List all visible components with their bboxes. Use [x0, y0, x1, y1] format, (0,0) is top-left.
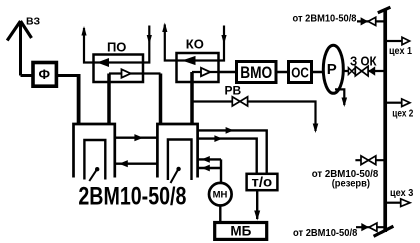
wire Р to valve З — [343, 70, 383, 72]
pipe stage 2 discharge up to КО — [190, 72, 194, 123]
ПО air line (lower, open right arrow) — [109, 72, 161, 74]
svg-text:т/о: т/о — [252, 174, 273, 190]
branch цех 2 — [386, 102, 402, 104]
compressor cylinder 2 outer shell — [157, 124, 197, 178]
КО water line (upper) — [177, 59, 219, 61]
wire oil pump riser — [220, 159, 222, 183]
receiver Р (ellipse) — [323, 45, 343, 93]
interstage return wire (left arrow) — [115, 162, 158, 164]
svg-text:ОС: ОС — [291, 65, 309, 81]
dryer ОС — [289, 62, 312, 83]
ПО water line (upper) — [94, 61, 144, 63]
check valve ОК (filled left triangle) — [368, 66, 375, 75]
svg-text:Р: Р — [327, 61, 337, 78]
compressor cylinder 2 inner piston — [168, 140, 192, 181]
wire Т/О to МБ (down arrow) — [256, 190, 258, 219]
leader line cylinder 2 — [171, 169, 179, 183]
interstage wire (stage1 to stage2, right arrow) — [115, 136, 158, 138]
svg-text:2ВМ10-50/8: 2ВМ10-50/8 — [78, 182, 186, 210]
ПО water inlet pipe (down arrow) — [143, 26, 149, 63]
svg-text:КО: КО — [186, 36, 204, 51]
wire top feed — [357, 20, 384, 22]
valve РВ (open bowtie) — [232, 97, 247, 106]
wire filter to compressor stage 1 suction — [57, 74, 79, 77]
Р drain line with down arrow — [335, 89, 344, 105]
svg-text:З ОК: З ОК — [350, 54, 377, 68]
wire ВЗ to filter — [21, 74, 34, 77]
header bottom cap — [374, 226, 394, 236]
svg-text:ВЗ: ВЗ — [26, 16, 40, 28]
svg-text:Ф: Ф — [39, 67, 51, 82]
pipe ПО down to stage 1 discharge — [107, 74, 111, 124]
svg-text:цех 3: цех 3 — [390, 187, 413, 199]
wire КО to ВМО — [219, 71, 237, 74]
svg-text:МБ: МБ — [230, 223, 251, 238]
oil tank МБ — [215, 223, 267, 240]
wire ВМО to ОС — [276, 71, 289, 74]
header pipe (vertical main) — [383, 10, 387, 233]
КО water inlet pipe (down arrow) — [219, 26, 225, 61]
svg-text:от 2ВМ10-50/8: от 2ВМ10-50/8 — [293, 13, 357, 25]
КО air line (lower, open right arrow) — [192, 71, 219, 73]
valve (large open bowtie) — [355, 66, 368, 76]
compressor cylinder 1 inner piston — [84, 140, 105, 180]
oil outlet wire 1 (to Т/О) — [198, 130, 267, 173]
oil outlet wire 2 (to Т/О) — [198, 139, 257, 174]
bottom feed valve (open bowtie) — [356, 226, 384, 228]
svg-text:ВМО: ВМО — [240, 64, 272, 82]
oil supply wire 1 (left arrow into compressor) — [198, 158, 221, 160]
valve top feed (half filled bowtie) — [361, 17, 369, 25]
branch цех 1 — [386, 40, 402, 42]
cooler ПО box — [94, 55, 144, 83]
air intake arrow ВЗ — [7, 21, 31, 76]
svg-text:цех 2: цех 2 — [392, 108, 413, 120]
reserve feed valve (open bowtie) — [355, 159, 383, 161]
filter Ф — [33, 63, 56, 87]
valve З (small bowtie) — [348, 68, 355, 75]
header top cap — [378, 7, 391, 13]
oil pump МН — [209, 183, 232, 206]
pipe ПО to stage 2 suction — [159, 74, 163, 124]
svg-text:от 2ВМ10-50/8: от 2ВМ10-50/8 — [293, 227, 357, 239]
oil supply wire 2 (left arrow into compressor) — [198, 167, 221, 169]
separator ВМО — [237, 62, 277, 83]
heat exchanger Т/О — [247, 174, 278, 190]
ПО water flow arrow (filled left) — [97, 58, 109, 67]
svg-text:(резерв): (резерв) — [332, 178, 370, 190]
wire ОС to Р — [312, 71, 324, 74]
unloading valve branch РВ — [192, 100, 232, 102]
cooler КО box — [177, 53, 219, 82]
wire МН to МБ — [219, 206, 221, 223]
КО water outlet pipe (up arrow) — [165, 25, 177, 61]
svg-text:цех 1: цех 1 — [389, 45, 412, 57]
compressor cylinder 1 outer shell — [74, 124, 115, 178]
svg-text:РВ: РВ — [225, 83, 242, 97]
РВ vent line with down arrow — [248, 102, 316, 132]
svg-text:МН: МН — [213, 190, 228, 201]
leader line cylinder 1 — [89, 170, 97, 181]
branch цех 3 — [386, 202, 401, 204]
svg-text:ПО: ПО — [107, 39, 126, 54]
КО water flow arrow (filled left) — [182, 56, 196, 65]
ПО water outlet pipe (up arrow) — [84, 28, 94, 63]
